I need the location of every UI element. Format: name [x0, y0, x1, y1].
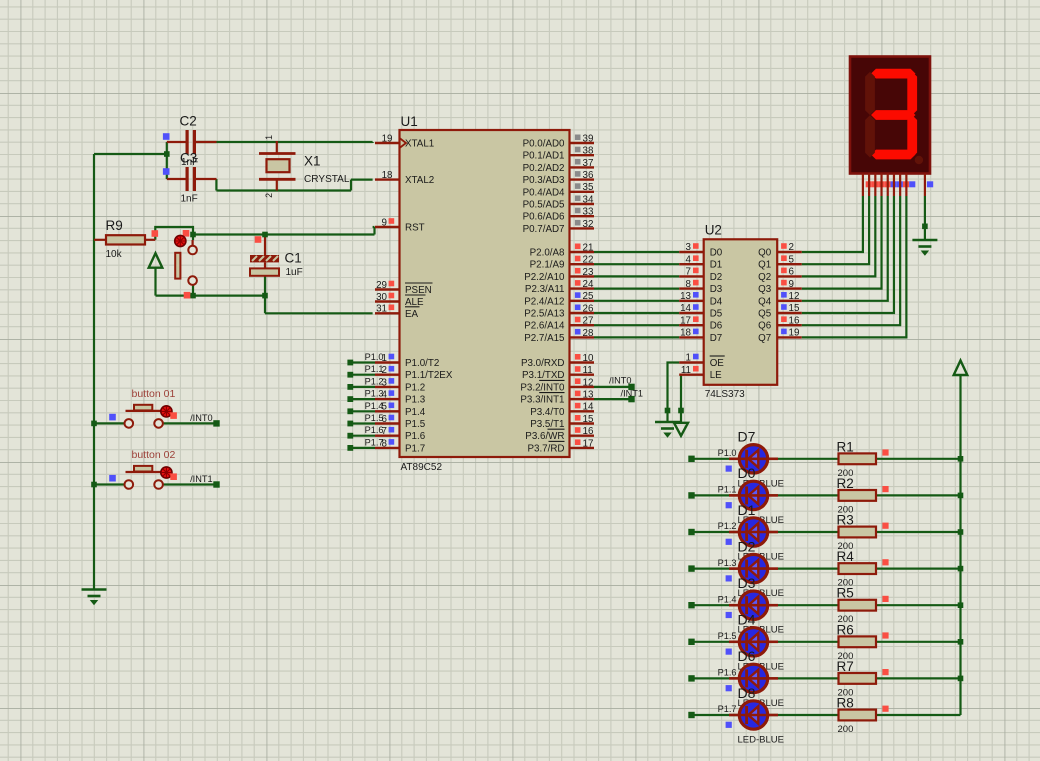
pin 8 P1.7 — [375, 447, 400, 449]
pin state button top — [183, 230, 190, 237]
display pin c — [874, 174, 876, 197]
C1 bottom plate — [250, 268, 279, 275]
pin 3 P1.2 — [375, 386, 400, 388]
wire P1.4 net stub — [350, 410, 375, 412]
svg-text:200: 200 — [838, 724, 854, 735]
pin 2 P1.1/T2EX — [375, 374, 400, 376]
pin 27 P2.6/A14 — [570, 324, 595, 326]
svg-text:P1.2: P1.2 — [405, 382, 425, 393]
pin 6 Q2 — [777, 275, 802, 277]
svg-text:P0.3/AD3: P0.3/AD3 — [523, 175, 565, 186]
svg-text:38: 38 — [583, 146, 594, 157]
wire Q1 to display seg b — [802, 196, 869, 264]
pin 38 P0.1/AD1 — [570, 154, 595, 156]
wire R2 to VCC rail — [876, 494, 961, 496]
svg-text:P0.2/AD2: P0.2/AD2 — [523, 163, 565, 174]
ground (display) — [912, 240, 937, 255]
resistor R6 200 — [839, 636, 877, 647]
svg-text:D4: D4 — [738, 612, 756, 628]
svg-text:29: 29 — [376, 280, 387, 291]
svg-text:P1.0: P1.0 — [718, 448, 737, 458]
pin 25 P2.4/A12 — [570, 300, 595, 302]
terminal — [347, 433, 353, 439]
svg-text:17: 17 — [680, 315, 691, 326]
svg-text:U1: U1 — [401, 114, 418, 129]
wire junction — [958, 566, 964, 572]
svg-text:22: 22 — [583, 255, 594, 266]
wire C3 right down — [215, 179, 217, 191]
svg-text:D0: D0 — [738, 465, 756, 481]
pin 18 D7 — [679, 336, 704, 338]
wire junction — [958, 602, 964, 608]
wire display common to ground — [924, 196, 926, 240]
svg-text:23: 23 — [583, 267, 594, 278]
svg-text:P1.6: P1.6 — [405, 431, 426, 442]
svg-text:X1: X1 — [304, 154, 321, 169]
display pin g — [899, 174, 901, 197]
svg-text:1: 1 — [686, 353, 691, 364]
svg-text:C3: C3 — [180, 151, 197, 166]
svg-text:P1.2: P1.2 — [718, 521, 737, 531]
display pin a — [862, 174, 864, 197]
pin 21 P2.0/A8 — [570, 251, 595, 253]
pin 29 PSEN — [375, 288, 400, 290]
svg-text:/INT0: /INT0 — [190, 413, 212, 423]
svg-text:R8: R8 — [837, 696, 854, 711]
pin 23 P2.2/A10 — [570, 275, 595, 277]
LED D3 row 5 (P1.4) — [729, 604, 739, 607]
terminal — [688, 675, 694, 681]
svg-text:P3.7/RD: P3.7/RD — [527, 443, 564, 454]
svg-text:C1: C1 — [285, 251, 302, 266]
svg-text:13: 13 — [680, 291, 691, 302]
crystal pin 2 lead — [276, 181, 278, 191]
wire R1 to VCC rail — [876, 458, 961, 460]
pin state led — [726, 502, 732, 508]
svg-text:19: 19 — [789, 328, 800, 339]
svg-text:19: 19 — [382, 133, 393, 144]
wire R5 to VCC rail — [876, 604, 961, 606]
svg-text:C2: C2 — [180, 114, 197, 129]
svg-text:D1: D1 — [738, 502, 756, 518]
svg-text:PSEN: PSEN — [405, 285, 432, 296]
pin 28 P2.7/A15 — [570, 336, 595, 338]
wire P1.5 net stub — [350, 422, 375, 424]
terminal — [688, 602, 694, 608]
pin state led — [726, 612, 732, 618]
wire LED D to R7 — [769, 677, 839, 679]
svg-text:P3.5/T1: P3.5/T1 — [530, 419, 564, 430]
pin state led — [726, 685, 732, 691]
wire P1.2 terminal to LED — [692, 531, 739, 533]
wire C2/C3 junction to rail — [94, 153, 167, 155]
svg-text:11: 11 — [583, 365, 593, 376]
svg-text:P1.7: P1.7 — [718, 704, 737, 714]
wire P2.4 to D4 — [594, 300, 679, 302]
wire LED D to R4 — [769, 567, 839, 569]
power terminal VCC (LED rail) — [954, 361, 968, 376]
terminal — [213, 481, 219, 487]
wire LED D to R3 — [769, 531, 839, 533]
wire Q3 to display seg d — [802, 196, 882, 289]
pin 32 P0.7/AD7 — [570, 227, 595, 229]
pin 9 RST — [375, 226, 400, 228]
LED D8 row 8 (P1.7) — [729, 714, 739, 717]
pin 26 P2.5/A13 — [570, 312, 595, 314]
pin state right — [170, 412, 177, 419]
wire junction — [262, 293, 268, 299]
wire junction — [922, 224, 928, 230]
segment e (off) — [865, 115, 875, 157]
wire P1.1 terminal to LED — [692, 494, 739, 496]
pin 22 P2.1/A9 — [570, 263, 595, 265]
svg-text:LED-BLUE: LED-BLUE — [738, 735, 784, 746]
svg-text:OE: OE — [710, 358, 725, 369]
svg-text:P1.4: P1.4 — [718, 594, 737, 604]
wire LED D to R5 — [769, 604, 839, 606]
segment dp (off) — [915, 156, 923, 164]
pin 11 P3.1/TXD — [570, 374, 595, 376]
svg-text:P3.6/WR: P3.6/WR — [525, 431, 564, 442]
terminal — [347, 445, 353, 451]
svg-text:Q2: Q2 — [758, 272, 771, 283]
wire P2.5 to D5 — [594, 312, 679, 314]
pin 5 P1.4 — [375, 410, 400, 412]
svg-text:button 02: button 02 — [132, 449, 176, 461]
pin state left — [109, 475, 116, 482]
pin 2 Q0 — [777, 251, 802, 253]
pin 6 P1.5 — [375, 422, 400, 424]
crystal bottom plate — [259, 178, 296, 181]
svg-text:Q4: Q4 — [758, 296, 772, 307]
wire junction — [958, 639, 964, 645]
svg-text:P1.4: P1.4 — [365, 401, 384, 411]
svg-text:D7: D7 — [710, 333, 723, 344]
push button button 01 — [125, 422, 129, 424]
wire /INT1 net — [594, 398, 632, 400]
svg-text:D1: D1 — [710, 260, 723, 271]
wire rail to button01 — [94, 422, 124, 424]
pin 1 P1.0/T2 — [375, 361, 400, 363]
wire LED D to R8 — [769, 714, 839, 716]
svg-text:P2.1/A9: P2.1/A9 — [530, 260, 565, 271]
ground (OE) — [655, 422, 680, 437]
svg-text:AT89C52: AT89C52 — [401, 462, 443, 473]
svg-text:P1.1/T2EX: P1.1/T2EX — [405, 370, 453, 381]
svg-text:D3: D3 — [710, 284, 723, 295]
wire Q0 to display seg a — [802, 196, 863, 252]
wire C1 top lead — [264, 235, 266, 256]
pin 7 D2 — [679, 275, 704, 277]
svg-text:26: 26 — [583, 303, 594, 314]
svg-text:Q1: Q1 — [758, 260, 771, 271]
svg-text:Q6: Q6 — [758, 321, 772, 332]
svg-text:Q3: Q3 — [758, 284, 772, 295]
svg-text:35: 35 — [583, 182, 594, 193]
wire C1 bottom to EA net — [264, 276, 266, 313]
svg-text:18: 18 — [382, 170, 393, 181]
wire junction — [190, 293, 196, 299]
resistor R3 200 — [839, 527, 877, 538]
junction C2/C3 — [164, 151, 170, 157]
wire Q2 to display seg c — [802, 196, 876, 276]
svg-text:16: 16 — [789, 315, 800, 326]
svg-text:37: 37 — [583, 158, 594, 169]
svg-text:6: 6 — [789, 267, 795, 278]
svg-text:D5: D5 — [710, 309, 723, 320]
wire P2.3 to D3 — [594, 288, 679, 290]
svg-text:25: 25 — [583, 291, 594, 302]
svg-text:12: 12 — [583, 377, 594, 388]
wire Q5 to display seg f — [802, 196, 894, 313]
svg-text:11: 11 — [681, 365, 691, 376]
svg-text:15: 15 — [583, 414, 594, 425]
pin 18 XTAL2 — [375, 178, 400, 180]
wire P1.6 terminal to LED — [692, 677, 739, 679]
svg-text:LE: LE — [710, 370, 722, 381]
resistor R7 200 — [839, 673, 877, 684]
pin 12 P3.2/INT0 — [570, 386, 595, 388]
pin 8 D3 — [679, 287, 704, 289]
pin state C2 — [163, 133, 170, 140]
terminal — [347, 372, 353, 378]
segment c (lit) — [907, 115, 917, 157]
pin 15 P3.5/T1 — [570, 422, 595, 424]
pin 3 D0 — [679, 251, 704, 253]
wire P1.7 net stub — [350, 447, 375, 449]
svg-text:R1: R1 — [837, 439, 854, 454]
wire LE to terminal — [680, 375, 682, 423]
svg-text:XTAL2: XTAL2 — [405, 175, 434, 186]
svg-text:9: 9 — [382, 217, 387, 228]
wire junction — [958, 529, 964, 535]
terminal — [347, 408, 353, 414]
pin 34 P0.5/AD5 — [570, 203, 595, 205]
wire VCC net horizontal — [156, 295, 266, 297]
pin 1 OE — [679, 361, 704, 363]
pin 19 XTAL1 — [375, 142, 400, 144]
svg-text:D0: D0 — [710, 248, 723, 259]
op-amp U1 AT89C52 microcontroller — [400, 130, 570, 457]
wire junction — [91, 482, 97, 488]
terminal — [688, 529, 694, 535]
svg-text:D6: D6 — [710, 321, 723, 332]
pin 14 P3.4/T0 — [570, 410, 595, 412]
svg-text:R2: R2 — [837, 476, 854, 491]
pin 7 P1.6 — [375, 435, 400, 437]
svg-text:P3.0/RXD: P3.0/RXD — [521, 358, 565, 369]
segment b (lit) — [907, 72, 917, 115]
svg-text:P0.4/AD4: P0.4/AD4 — [523, 187, 565, 198]
pin state R7 — [882, 669, 888, 675]
svg-text:P3.3/INT1: P3.3/INT1 — [520, 395, 564, 406]
button knob — [134, 466, 152, 472]
LED D1 row 3 (P1.2) — [729, 531, 739, 534]
wire /INT0 net — [594, 386, 632, 388]
svg-text:2: 2 — [264, 193, 274, 198]
wire P1.3 terminal to LED — [692, 567, 739, 569]
svg-text:31: 31 — [376, 304, 387, 315]
wire Q7 to display seg h — [802, 196, 907, 337]
pin state C1 — [255, 236, 262, 243]
svg-text:10: 10 — [583, 353, 594, 364]
resistor R1 200 — [839, 453, 877, 464]
svg-text:1: 1 — [264, 135, 274, 140]
svg-text:R6: R6 — [837, 622, 854, 637]
pin 33 P0.6/AD6 — [570, 215, 595, 217]
svg-text:R4: R4 — [837, 549, 855, 564]
display pin h — [905, 174, 907, 197]
svg-text:P0.0/AD0: P0.0/AD0 — [523, 139, 565, 150]
wire LED D to R1 — [769, 458, 839, 460]
pin state left — [109, 414, 116, 421]
svg-text:1uF: 1uF — [286, 267, 303, 278]
svg-text:30: 30 — [376, 292, 387, 303]
svg-text:17: 17 — [583, 438, 594, 449]
pin 17 P3.7/RD — [570, 447, 595, 449]
svg-text:P1.4: P1.4 — [405, 407, 426, 418]
pin 16 Q6 — [777, 324, 802, 326]
wire LED D to R6 — [769, 641, 839, 643]
pin state led — [726, 649, 732, 655]
svg-text:D7: D7 — [738, 429, 756, 445]
svg-text:3: 3 — [686, 242, 692, 253]
wire to EA — [265, 312, 373, 314]
svg-text:5: 5 — [789, 254, 795, 265]
svg-text:1nF: 1nF — [181, 194, 198, 205]
pin 5 Q1 — [777, 263, 802, 265]
wire P1.2 net stub — [350, 386, 375, 388]
wire Q6 to display seg g — [802, 196, 900, 325]
button bar — [126, 471, 162, 473]
wire junction — [665, 408, 671, 414]
pin 9 Q3 — [777, 287, 802, 289]
crystal pin 1 lead — [276, 141, 278, 153]
svg-text:P3.1/TXD: P3.1/TXD — [522, 370, 564, 381]
svg-text:XTAL1: XTAL1 — [405, 139, 434, 150]
svg-text:P1.2: P1.2 — [365, 376, 384, 386]
wire P1.0 terminal to LED — [692, 458, 739, 460]
resistor R4 200 — [839, 563, 877, 574]
wire C2 right to XTAL1 — [196, 141, 373, 143]
display common pin — [924, 174, 926, 197]
svg-text:P0.6/AD6: P0.6/AD6 — [523, 212, 565, 223]
7-segment display — [850, 57, 930, 174]
svg-text:8: 8 — [686, 279, 692, 290]
svg-text:R5: R5 — [837, 586, 854, 601]
svg-text:36: 36 — [583, 170, 594, 181]
pin state R3 — [882, 523, 888, 529]
svg-text:/INT1: /INT1 — [190, 474, 212, 484]
wire P2.2 to D2 — [594, 275, 679, 277]
svg-text:16: 16 — [583, 426, 594, 437]
wire junction — [958, 676, 964, 682]
wire R8 to VCC rail — [876, 714, 961, 716]
svg-text:/INT0: /INT0 — [609, 375, 631, 385]
svg-text:P1.1: P1.1 — [718, 485, 737, 495]
svg-text:32: 32 — [583, 219, 594, 230]
svg-text:D4: D4 — [710, 296, 723, 307]
LED D2 row 4 (P1.3) — [729, 567, 739, 570]
terminal /INT1 — [628, 396, 634, 402]
pin 13 P3.3/INT1 — [570, 398, 595, 400]
svg-text:R7: R7 — [837, 659, 854, 674]
terminal — [688, 456, 694, 462]
svg-text:33: 33 — [583, 207, 594, 218]
interactive red dot — [175, 235, 186, 246]
segment f (off) — [865, 72, 875, 115]
pin 4 P1.3 — [375, 398, 400, 400]
svg-text:P1.3: P1.3 — [405, 395, 426, 406]
wire GND rail left — [93, 154, 95, 589]
terminal — [347, 421, 353, 427]
pin 39 P0.0/AD0 — [570, 142, 595, 144]
wire OE to ground — [668, 363, 680, 422]
svg-text:7: 7 — [686, 267, 691, 278]
LED D7 row 1 (P1.0) — [729, 457, 739, 460]
svg-text:D6: D6 — [738, 648, 756, 664]
pin 16 P3.6/WR — [570, 435, 595, 437]
svg-text:P2.6/A14: P2.6/A14 — [524, 321, 565, 332]
svg-text:RST: RST — [405, 223, 425, 234]
svg-text:P3.4/T0: P3.4/T0 — [530, 407, 565, 418]
svg-text:27: 27 — [583, 316, 594, 327]
svg-text:10k: 10k — [106, 249, 123, 260]
svg-text:D2: D2 — [738, 538, 756, 554]
crystal body — [267, 159, 290, 172]
svg-text:D8: D8 — [738, 685, 756, 701]
pin state R8 — [882, 706, 888, 712]
wire R6 to VCC rail — [876, 641, 961, 643]
pin 12 Q4 — [777, 300, 802, 302]
XTAL1 clock mark — [400, 138, 407, 148]
svg-text:P2.5/A13: P2.5/A13 — [524, 309, 565, 320]
svg-text:28: 28 — [583, 328, 594, 339]
svg-text:P1.3: P1.3 — [718, 558, 737, 568]
svg-text:R9: R9 — [106, 218, 123, 233]
latch U2 74LS373 — [704, 239, 778, 384]
LED D4 row 6 (P1.5) — [729, 640, 739, 643]
wire button02 to /INT1 terminal — [163, 483, 216, 485]
svg-text:P1.3: P1.3 — [365, 389, 384, 399]
pin 4 D1 — [679, 263, 704, 265]
svg-text:18: 18 — [680, 328, 691, 339]
svg-text:CRYSTAL: CRYSTAL — [304, 174, 350, 185]
terminal — [688, 565, 694, 571]
capacitor C3 — [167, 178, 187, 180]
display pin b — [868, 174, 870, 197]
svg-text:P2.0/A8: P2.0/A8 — [530, 248, 565, 259]
pin state led — [726, 539, 732, 545]
pin 36 P0.3/AD3 — [570, 178, 595, 180]
wire junction — [958, 493, 964, 499]
display pin f — [893, 174, 895, 197]
svg-text:D2: D2 — [710, 272, 723, 283]
wire RST net — [193, 233, 375, 235]
wire P1.5 terminal to LED — [692, 641, 739, 643]
svg-text:15: 15 — [789, 303, 800, 314]
wire R4 to VCC rail — [876, 567, 961, 569]
resistor R9 — [94, 239, 106, 241]
C1 top plate — [250, 255, 279, 262]
pin state led — [726, 466, 732, 472]
pin 11 LE — [679, 374, 704, 376]
pin 30 ALE — [375, 300, 400, 302]
button bar — [126, 410, 162, 412]
svg-text:74LS373: 74LS373 — [705, 389, 745, 400]
pin state C3 — [163, 168, 170, 175]
pin 10 P3.0/RXD — [570, 361, 595, 363]
